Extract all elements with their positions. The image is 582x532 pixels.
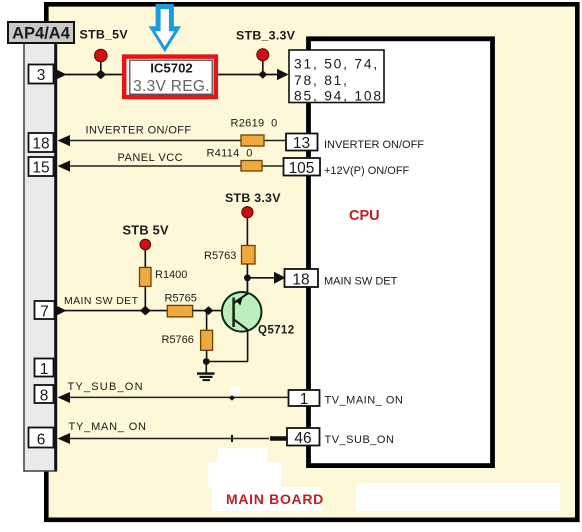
wire TY_MAN_ON xyxy=(58,421,288,444)
pin box 46 (CPU) xyxy=(287,428,394,447)
svg-text:AP4/A4: AP4/A4 xyxy=(12,25,71,43)
svg-text:TV_SUB_ON: TV_SUB_ON xyxy=(325,434,395,446)
svg-text:6: 6 xyxy=(37,432,46,449)
CPU U-main block xyxy=(309,39,493,466)
svg-text:R5763: R5763 xyxy=(204,250,236,262)
svg-text:STB_5V: STB_5V xyxy=(80,28,129,42)
svg-text:MAIN SW DET: MAIN SW DET xyxy=(324,276,398,288)
svg-text:Q5712: Q5712 xyxy=(258,325,295,337)
svg-text:R4114 0: R4114 0 xyxy=(207,148,253,160)
svg-text:105: 105 xyxy=(289,160,315,177)
svg-text:INVERTER ON/OFF: INVERTER ON/OFF xyxy=(86,125,192,137)
wire PANEL VCC xyxy=(58,152,286,172)
transistor Q5712 xyxy=(222,278,295,362)
svg-text:R5766: R5766 xyxy=(162,334,194,346)
pin box 13 xyxy=(286,134,424,153)
resistor R1400 xyxy=(140,267,188,310)
svg-text:TY_SUB_ON: TY_SUB_ON xyxy=(68,381,144,393)
wire MAIN SW DET from pin 7 xyxy=(55,295,167,316)
svg-text:STB_3.3V: STB_3.3V xyxy=(236,29,296,43)
svg-text:13: 13 xyxy=(293,135,310,152)
svg-text:R2619 0: R2619 0 xyxy=(231,118,278,130)
wire pin3 to IC5702 to CPU xyxy=(54,69,289,81)
resistor R5766 xyxy=(162,311,213,362)
svg-text:31, 50, 74,: 31, 50, 74, xyxy=(294,57,379,72)
emitter wire to ground xyxy=(203,358,248,365)
svg-text:CPU: CPU xyxy=(349,208,380,224)
regulator IC5702 xyxy=(124,57,216,97)
svg-text:R5765: R5765 xyxy=(165,293,197,305)
resistor R4114 xyxy=(207,148,263,172)
svg-text:STB 3.3V: STB 3.3V xyxy=(225,191,281,205)
svg-text:1: 1 xyxy=(300,391,309,408)
pin box 3 xyxy=(29,65,54,85)
pin box 1 xyxy=(35,359,54,379)
svg-text:3.3V REG.: 3.3V REG. xyxy=(133,78,210,95)
wire TY_SUB_ON xyxy=(58,381,289,403)
pin box 15 xyxy=(29,157,54,177)
svg-text:18: 18 xyxy=(292,272,309,289)
ground xyxy=(197,362,215,381)
svg-text:R1400: R1400 xyxy=(155,269,187,281)
wire INVERTER ON/OFF xyxy=(58,125,288,147)
svg-text:TV_MAIN_ ON: TV_MAIN_ ON xyxy=(325,395,404,407)
connector strip AP4/A4 xyxy=(24,41,56,471)
pin box 8 xyxy=(35,385,54,405)
svg-text:15: 15 xyxy=(32,160,49,177)
CPU pins box 31,50,74... xyxy=(289,50,384,104)
svg-text:MAIN BOARD: MAIN BOARD xyxy=(226,491,324,507)
node STB 3.3V (mid) xyxy=(225,191,281,246)
wire R5765 to transistor base, junction to R5766 xyxy=(193,306,234,315)
pin box 7 xyxy=(35,301,55,321)
pin box 105 xyxy=(284,158,410,177)
resistor R5763 xyxy=(204,246,255,265)
pin box 1 (CPU) xyxy=(289,390,404,408)
resistor R5765 xyxy=(165,293,197,317)
svg-text:PANEL VCC: PANEL VCC xyxy=(118,152,184,164)
svg-text:MAIN SW DET: MAIN SW DET xyxy=(64,295,139,307)
pin box 18 xyxy=(29,133,54,153)
svg-text:INVERTER ON/OFF: INVERTER ON/OFF xyxy=(324,139,424,151)
white patches xyxy=(231,387,240,396)
svg-text:85, 94, 108: 85, 94, 108 xyxy=(294,89,383,104)
node STB_5V xyxy=(80,28,129,80)
svg-text:46: 46 xyxy=(294,430,311,447)
node STB 5V (mid) xyxy=(123,223,170,268)
svg-text:78, 81,: 78, 81, xyxy=(294,73,349,88)
svg-text:STB 5V: STB 5V xyxy=(123,223,170,238)
svg-text:8: 8 xyxy=(40,388,49,405)
svg-text:7: 7 xyxy=(40,304,49,321)
pin box 6 xyxy=(29,428,54,449)
pin box 18 (CPU) xyxy=(285,269,398,289)
svg-text:18: 18 xyxy=(32,136,49,153)
resistor R2619 xyxy=(231,118,278,147)
svg-text:+12V(P) ON/OFF: +12V(P) ON/OFF xyxy=(324,165,410,177)
svg-text:1: 1 xyxy=(40,361,49,378)
node STB_3.3V xyxy=(236,29,296,79)
svg-text:TY_MAN_ ON: TY_MAN_ ON xyxy=(69,421,147,433)
connector label AP4/A4 xyxy=(8,22,74,43)
svg-text:IC5702: IC5702 xyxy=(150,60,193,75)
annotation arrow (blue) xyxy=(149,4,182,52)
wire collector / MAIN SW DET to pin 18 xyxy=(244,264,286,293)
svg-text:3: 3 xyxy=(37,67,46,84)
